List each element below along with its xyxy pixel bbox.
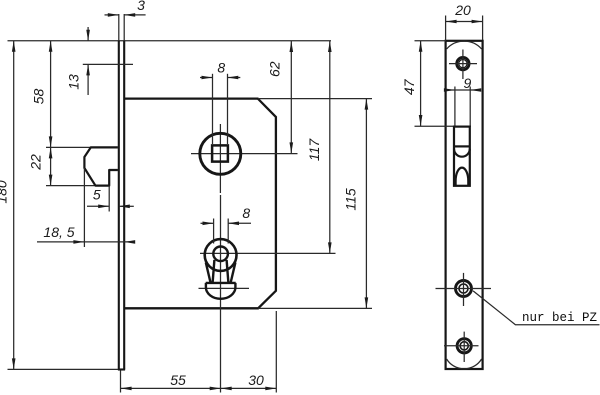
svg-text:13: 13	[66, 74, 82, 90]
svg-text:55: 55	[170, 372, 186, 388]
PZ keyway outline	[206, 260, 236, 299]
svg-text:nur bei PZ: nur bei PZ	[522, 311, 598, 325]
svg-text:3: 3	[137, 0, 145, 13]
svg-text:62: 62	[267, 61, 283, 77]
svg-text:20: 20	[454, 2, 471, 18]
top rounded-end arc	[447, 41, 482, 49]
dim 62	[290, 41, 292, 153]
dim 58	[50, 41, 52, 148]
svg-text:22: 22	[28, 154, 44, 171]
hub square 8mm	[212, 145, 228, 161]
latch nose dome (lower)	[456, 168, 469, 186]
hub centerline vertical	[219, 124, 221, 193]
lock body outline	[124, 99, 276, 309]
faceplate front outline	[446, 41, 483, 369]
latch face line	[454, 145, 470, 147]
leader line (nur bei PZ)	[473, 291, 599, 325]
svg-text:8: 8	[217, 59, 225, 75]
PZ cylinder hole outer circle	[205, 239, 237, 271]
latch cutout	[454, 127, 470, 186]
body top extension line	[258, 98, 372, 100]
PZ cylinder core circle	[213, 247, 228, 262]
svg-text:117: 117	[306, 138, 322, 162]
svg-text:9: 9	[464, 75, 472, 91]
dim 13	[83, 27, 133, 95]
dim 180 (overall height)	[13, 41, 15, 370]
hub centerline horizontal	[191, 153, 298, 155]
bottom screw hole	[457, 339, 471, 353]
dim 3 (faceplate thickness)	[105, 14, 146, 16]
dim 55 / 30	[121, 311, 277, 393]
cylinder centerline horizontal (117 extension)	[200, 252, 336, 254]
bottom rounded-end arc	[447, 359, 482, 369]
dim 18,5	[37, 168, 132, 247]
dim 47	[415, 41, 456, 126]
latch bottom extension line	[46, 185, 96, 187]
top screw hole	[457, 57, 469, 69]
dim 22	[50, 147, 52, 185]
faceplate top extension lines	[119, 14, 124, 41]
body bottom extension line	[258, 307, 372, 309]
middle screw hole (PZ)	[456, 281, 472, 297]
cylinder centerline vertical	[220, 195, 222, 393]
svg-text:180: 180	[0, 180, 10, 204]
dim 9 (latch cutout width)	[448, 87, 480, 128]
svg-text:18, 5: 18, 5	[43, 224, 74, 240]
top reference line	[8, 40, 332, 42]
latch top extension line	[46, 146, 91, 148]
dim 8 (cylinder)	[201, 219, 252, 244]
dim 8 (hub square)	[200, 74, 240, 144]
faceplate side view	[118, 41, 125, 370]
svg-text:58: 58	[31, 89, 47, 105]
dim 20	[446, 16, 483, 41]
svg-text:5: 5	[93, 187, 101, 203]
dim 5 (latch step)	[87, 186, 134, 212]
cylinder lower centerline horizontal	[199, 287, 250, 289]
dim 115	[365, 99, 367, 309]
latch bevel arc (upper)	[454, 149, 470, 157]
svg-text:47: 47	[401, 78, 417, 95]
latch bolt (side view)	[84, 147, 118, 185]
svg-text:8: 8	[242, 205, 250, 221]
svg-text:115: 115	[343, 188, 359, 211]
dim 117	[329, 41, 331, 253]
svg-text:30: 30	[248, 372, 264, 388]
bottom extension line (180)	[8, 368, 119, 370]
hub circle	[200, 133, 241, 174]
